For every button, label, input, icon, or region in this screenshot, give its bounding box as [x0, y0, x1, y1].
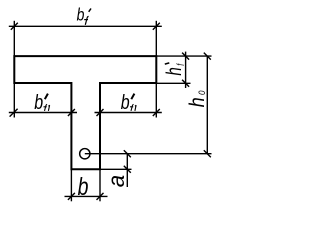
svg-text:0: 0: [196, 90, 207, 95]
svg-text:b: b: [34, 92, 43, 114]
svg-text:a: a: [102, 175, 129, 187]
svg-text:h: h: [186, 97, 210, 107]
svg-text:h: h: [161, 67, 185, 75]
svg-text:f: f: [175, 62, 186, 65]
svg-text:b: b: [121, 92, 130, 114]
svg-text:b: b: [77, 6, 85, 25]
svg-text:b: b: [78, 173, 89, 201]
